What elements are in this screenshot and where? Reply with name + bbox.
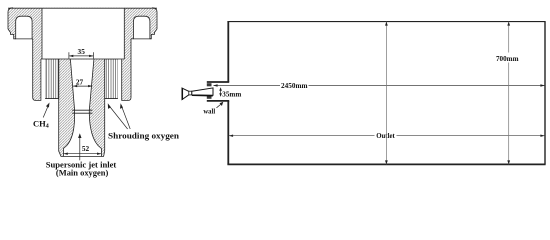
- svg-text:27: 27: [76, 78, 84, 87]
- svg-text:CH4: CH4: [33, 118, 49, 129]
- svg-text:2450mm: 2450mm: [281, 81, 308, 90]
- svg-text:Outlet: Outlet: [376, 131, 395, 140]
- svg-text:wall: wall: [203, 108, 215, 115]
- svg-text:52: 52: [82, 144, 90, 153]
- svg-text:35: 35: [78, 47, 86, 56]
- svg-text:35mm: 35mm: [222, 89, 242, 98]
- svg-text:700mm: 700mm: [496, 54, 519, 63]
- svg-text:(Main oxygen): (Main oxygen): [56, 169, 109, 178]
- svg-text:Shrouding oxygen: Shrouding oxygen: [108, 131, 179, 141]
